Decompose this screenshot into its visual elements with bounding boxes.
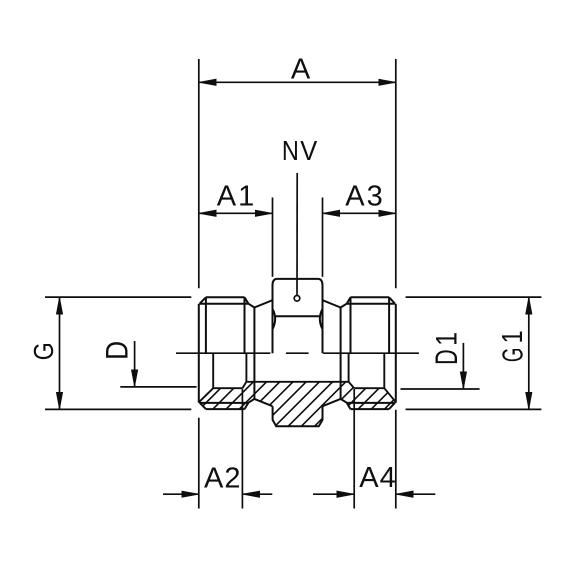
D1 reference line bbox=[401, 388, 480, 390]
dimension A2 arrow left bbox=[163, 493, 198, 495]
svg-text:D: D bbox=[99, 341, 135, 360]
hex bottom tab bbox=[273, 406, 323, 426]
svg-text:1: 1 bbox=[497, 330, 529, 343]
svg-text:N: N bbox=[282, 135, 299, 166]
right taper cone bottom bbox=[323, 399, 341, 406]
NV leader line bbox=[296, 173, 298, 296]
dimension D arrow bbox=[134, 341, 136, 386]
slot vertical left bbox=[245, 353, 247, 382]
left countersink diagonal bbox=[199, 388, 213, 402]
svg-text:A4: A4 bbox=[359, 462, 396, 494]
dimension G1 arrow bbox=[528, 298, 530, 409]
dimension A2 extension line right bbox=[241, 389, 243, 509]
G1 bottom reference line bbox=[406, 408, 542, 410]
dimension A4 arrow left bbox=[313, 493, 353, 495]
right countersink diagonal bbox=[384, 388, 396, 402]
left taper cone top bbox=[254, 300, 272, 307]
center axis line right segment bbox=[323, 352, 419, 354]
svg-text:A2: A2 bbox=[204, 463, 241, 495]
dimension D1 arrow bbox=[462, 343, 464, 388]
G1 top reference line bbox=[406, 296, 542, 298]
svg-text:A: A bbox=[291, 53, 311, 85]
right block outline bbox=[341, 297, 396, 409]
right step diagonal bbox=[349, 382, 355, 388]
svg-text:A3: A3 bbox=[345, 180, 384, 212]
dimension A2 arrow right bbox=[243, 493, 272, 495]
left block outline bbox=[199, 297, 255, 409]
hex corner arc right bbox=[320, 309, 322, 329]
right bore wall right bbox=[383, 353, 385, 388]
dimension A3 extension line left (hex right) bbox=[322, 198, 324, 277]
svg-text:V: V bbox=[300, 135, 317, 166]
left step diagonal bbox=[242, 382, 246, 388]
center axis dash bbox=[286, 352, 309, 354]
hex waist line bbox=[275, 315, 319, 317]
right shoulder vertical bbox=[340, 308, 342, 399]
left shoulder vertical bbox=[253, 308, 255, 399]
right block hex flat lines bbox=[351, 297, 390, 353]
dimension A4 extension line right bbox=[395, 410, 397, 509]
left taper cone bottom bbox=[254, 399, 272, 406]
svg-text:G: G bbox=[497, 348, 529, 363]
center axis line left segment bbox=[176, 352, 270, 354]
svg-text:G: G bbox=[28, 342, 59, 360]
svg-text:1: 1 bbox=[431, 332, 464, 346]
slot vertical right bbox=[348, 353, 350, 382]
hex corner arc left bbox=[273, 309, 275, 329]
left bore wall left bbox=[212, 353, 214, 388]
dimension A3 line bbox=[323, 212, 395, 214]
center hex outline bbox=[273, 279, 323, 353]
section hatching bbox=[156, 340, 467, 440]
left bore bottom bbox=[213, 387, 242, 389]
dimension A extension line right bbox=[395, 59, 397, 288]
dimension A4 arrow right bbox=[397, 493, 436, 495]
dimension G arrow bbox=[59, 298, 61, 409]
dimension A2 extension line left bbox=[198, 418, 200, 509]
svg-text:A1: A1 bbox=[217, 180, 256, 212]
G top reference line bbox=[45, 296, 191, 298]
G bottom reference line bbox=[45, 408, 191, 410]
svg-text:D: D bbox=[428, 349, 464, 365]
NV leader circle bbox=[294, 296, 300, 302]
dimension A1 extension line right (hex left) bbox=[272, 198, 274, 277]
dimension A line bbox=[200, 81, 395, 83]
dimension A extension line left bbox=[198, 59, 200, 288]
left block hex flat lines bbox=[206, 297, 245, 353]
right bore bottom bbox=[354, 387, 384, 389]
D reference line bbox=[120, 386, 196, 388]
dimension A1 line bbox=[200, 212, 272, 214]
dimension A4 extension line left bbox=[353, 389, 355, 509]
right taper cone top bbox=[323, 300, 341, 307]
center bore bottom line bbox=[246, 381, 348, 383]
